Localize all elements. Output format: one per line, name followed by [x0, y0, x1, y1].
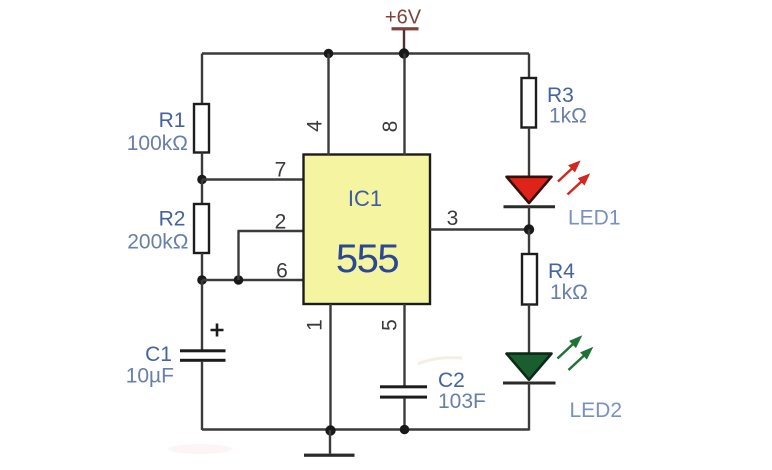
resistor R4	[522, 254, 537, 305]
wire: pin 6 horizontal to IC	[202, 279, 304, 281]
LED2 light arrow b	[565, 343, 597, 374]
wire: top rail branch down to R3	[528, 54, 530, 80]
wire: pin 4 vertical	[327, 54, 329, 156]
wire: bottom rail	[202, 428, 529, 430]
svg-text:+6V: +6V	[385, 7, 422, 29]
ground stub	[329, 430, 331, 454]
LED1 light arrow b	[564, 170, 593, 198]
svg-text:10µF: 10µF	[126, 365, 174, 388]
svg-text:1kΩ: 1kΩ	[549, 105, 587, 128]
node B junction (R2 / C1 / pin 6)	[197, 275, 207, 285]
wire: pin 8 vertical	[403, 54, 405, 156]
wire: node A to R2	[201, 180, 203, 206]
svg-text:1kΩ: 1kΩ	[550, 281, 588, 304]
junction top rail / +6V / pin 8	[399, 48, 409, 58]
wire: left rail from top rail down to R1	[201, 54, 203, 106]
svg-text:IC1: IC1	[348, 186, 382, 211]
svg-text:100kΩ: 100kΩ	[127, 132, 188, 155]
capacitor C1	[180, 349, 226, 362]
svg-text:8: 8	[379, 121, 402, 133]
LED1 light arrow a	[555, 157, 584, 185]
svg-text:103F: 103F	[438, 390, 486, 413]
wire: C2 bottom to bottom rail	[403, 399, 405, 430]
wire: pin 1 vertical to bottom rail	[329, 304, 331, 430]
svg-text:2: 2	[275, 211, 287, 234]
junction bottom rail / C2	[400, 425, 410, 435]
resistor R1	[194, 104, 209, 153]
wire: R2 bottom to node B	[201, 253, 203, 280]
capacitor C2	[380, 385, 427, 398]
svg-text:C1: C1	[145, 343, 172, 366]
junction bottom rail / pin 1 / ground	[325, 425, 335, 435]
svg-text:555: 555	[336, 237, 398, 281]
resistor R2	[194, 204, 209, 253]
svg-text:5: 5	[379, 319, 402, 331]
junction top rail / pin 4	[324, 49, 334, 59]
resistor R3	[522, 78, 537, 128]
op-amp/timer IC1 body (555)	[304, 155, 431, 305]
node A junction (R1 / R2 / pin 7)	[197, 175, 207, 185]
LED2 cathode bar	[503, 382, 556, 385]
wire: pin 5 vertical to C2	[403, 304, 405, 386]
wire: R3 bottom to LED1	[528, 128, 530, 179]
wire: LED2 to bottom rail	[528, 383, 530, 431]
svg-text:LED1: LED1	[568, 207, 621, 230]
node C junction (pin 3 / LED1 / R4)	[524, 224, 534, 234]
wire: node C to R4	[528, 230, 530, 256]
power +6V bar	[392, 27, 419, 30]
ground bar	[304, 454, 355, 457]
wire: top rail from left corner to R3 branch	[202, 52, 529, 54]
wire: node B down to capacitor C1	[201, 280, 203, 350]
svg-text:1: 1	[304, 319, 327, 331]
LED1 cathode bar	[504, 205, 556, 208]
svg-text:LED2: LED2	[570, 399, 623, 422]
svg-text:R4: R4	[548, 260, 575, 283]
faint smudge bottom-left (decorative)	[168, 444, 232, 454]
svg-text:R1: R1	[159, 109, 186, 132]
capacitor C1 polarity plus sign	[211, 324, 224, 337]
svg-text:4: 4	[304, 120, 327, 132]
wire: LED1 to node C	[528, 207, 530, 230]
svg-text:R2: R2	[159, 208, 186, 231]
svg-text:3: 3	[447, 207, 459, 230]
wire: pin 3 horizontal to node C	[430, 228, 529, 230]
LED2 light arrow a	[554, 332, 586, 363]
wire: pin 7 horizontal to IC	[202, 178, 304, 180]
svg-text:200kΩ: 200kΩ	[127, 231, 188, 254]
svg-text:6: 6	[276, 260, 288, 283]
faint watermark smudge near C2 (decorative)	[418, 358, 462, 364]
svg-text:7: 7	[275, 159, 287, 182]
power +6V stub to top rail	[403, 30, 405, 54]
svg-text:C2: C2	[438, 369, 465, 392]
wire: pin 2 horizontal to IC	[238, 230, 305, 232]
junction pin2 link / pin6 wire	[234, 275, 244, 285]
wire: R4 bottom to LED2	[528, 305, 530, 356]
wire: pin 2 vertical link down to pin 6 wire	[237, 231, 239, 280]
wire: C1 bottom to bottom rail	[201, 362, 203, 430]
wire: R1 bottom to node A	[201, 153, 203, 181]
LED1 diode triangle	[507, 177, 552, 203]
LED2 diode triangle	[507, 354, 552, 380]
